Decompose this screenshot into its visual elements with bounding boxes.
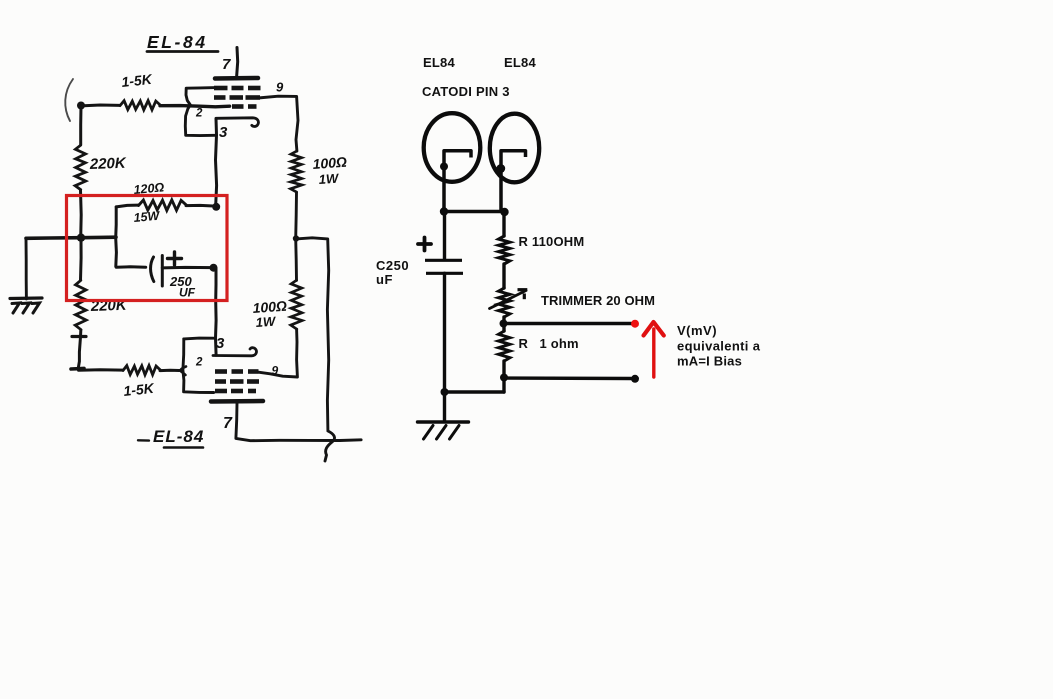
svg-text:C250: C250 xyxy=(376,258,409,273)
svg-text:UF: UF xyxy=(179,286,196,300)
svg-text:1W: 1W xyxy=(318,171,340,187)
svg-text:mA=I Bias: mA=I Bias xyxy=(677,354,742,369)
svg-text:EL-84: EL-84 xyxy=(147,32,208,52)
svg-text:15W: 15W xyxy=(133,209,161,225)
svg-text:100Ω: 100Ω xyxy=(312,154,347,172)
svg-text:equivalenti a: equivalenti a xyxy=(677,338,761,353)
svg-text:1-5K: 1-5K xyxy=(121,71,154,90)
svg-text:2: 2 xyxy=(195,357,203,369)
svg-text:1W: 1W xyxy=(255,314,277,330)
svg-text:V(mV): V(mV) xyxy=(677,323,717,338)
svg-text:7: 7 xyxy=(222,56,231,73)
svg-text:uF: uF xyxy=(376,272,393,287)
svg-text:3: 3 xyxy=(219,124,228,141)
svg-text:1-5K: 1-5K xyxy=(123,380,156,399)
svg-text:2: 2 xyxy=(195,108,203,120)
svg-text:EL84: EL84 xyxy=(504,55,536,70)
svg-text:120Ω: 120Ω xyxy=(133,180,165,197)
svg-text:TRIMMER 20 OHM: TRIMMER 20 OHM xyxy=(541,293,655,308)
svg-text:R 1 ohm: R 1 ohm xyxy=(519,336,579,351)
svg-text:CATODI PIN 3: CATODI PIN 3 xyxy=(422,84,510,99)
svg-text:EL84: EL84 xyxy=(423,55,455,70)
svg-text:EL-84: EL-84 xyxy=(153,427,204,446)
svg-text:7: 7 xyxy=(223,415,233,432)
svg-text:R 110OHM: R 110OHM xyxy=(519,234,585,249)
svg-text:9: 9 xyxy=(276,80,284,95)
svg-text:220K: 220K xyxy=(89,155,128,173)
